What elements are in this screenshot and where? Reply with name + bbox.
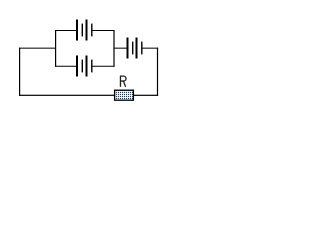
wire: top branch right segment [92, 30, 114, 31]
wire: middle right horizontal into B3 [113, 48, 126, 49]
battery B3 (right) [127, 38, 143, 59]
battery B2 (bottom parallel branch) [76, 56, 93, 77]
wire: outer left vertical [19, 48, 20, 96]
battery B1 (top parallel branch) [76, 20, 93, 41]
wire: parallel-loop right vertical [113, 30, 114, 67]
wire: bottom branch right segment [92, 66, 114, 67]
wire: bottom branch left segment [55, 66, 76, 67]
wire: from B3 to right vertical [143, 48, 159, 49]
wire: outer right vertical [157, 48, 158, 96]
resistor R [115, 90, 134, 100]
label R [120, 76, 126, 87]
wire: top branch left segment [55, 30, 76, 31]
wire: bottom right horizontal from resistor [134, 95, 159, 96]
wire: middle left horizontal [19, 48, 56, 49]
wire: parallel-loop left vertical [55, 30, 56, 67]
wire: bottom left horizontal to resistor [19, 95, 115, 96]
